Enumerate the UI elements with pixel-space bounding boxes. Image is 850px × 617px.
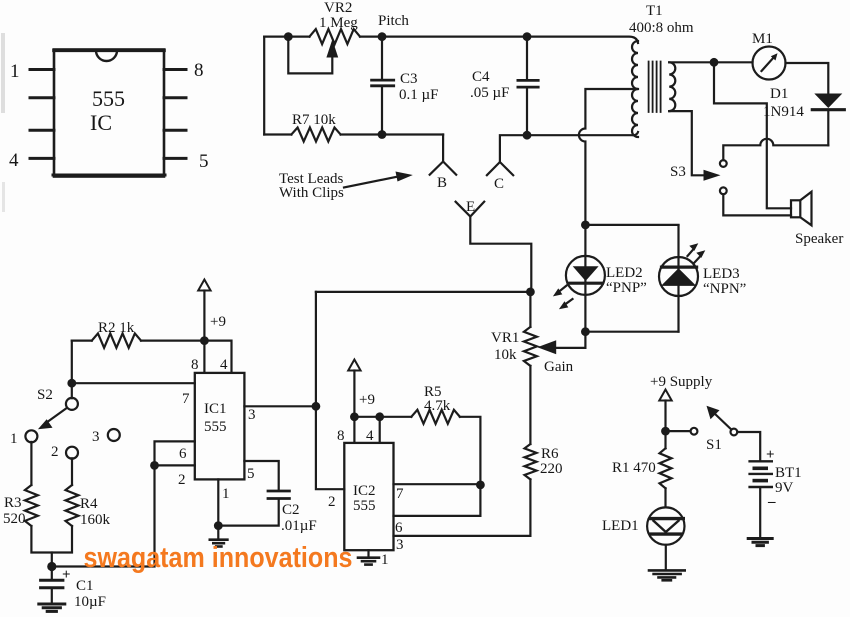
svg-text:T1: T1 — [646, 3, 663, 19]
svg-text:+: + — [766, 447, 775, 463]
diode D1 — [814, 94, 842, 109]
pin 4 lead — [30, 157, 54, 160]
svg-text:7: 7 — [396, 486, 404, 502]
LED2 — [566, 256, 605, 295]
wire pin3 riser to E rail and down to IC2 pin2 — [316, 292, 344, 489]
svg-text:4.7k: 4.7k — [424, 398, 451, 414]
node R5 pin7 junction — [476, 481, 485, 490]
node E junction — [526, 288, 535, 297]
switch S3 bottom contact — [720, 187, 727, 194]
svg-text:Gain: Gain — [544, 359, 574, 375]
S2 contact 2 — [66, 447, 78, 459]
wire secondary bottom to S3 arm — [669, 111, 704, 175]
svg-text:520: 520 — [3, 511, 26, 527]
svg-text:+: + — [62, 567, 71, 583]
node LED2 bottom junction — [581, 327, 590, 336]
wire pin1 IC2 — [367, 550, 369, 557]
pin 8 lead — [164, 68, 186, 71]
wire contact2 to R4 — [71, 458, 73, 485]
switch S3 top contact — [720, 160, 727, 167]
wire pin4 feed IC2 — [379, 417, 381, 443]
node R2/S2 junction — [67, 379, 76, 388]
wire top rail left — [264, 35, 309, 37]
resistor R7 — [264, 133, 291, 135]
scan artifact left edge — [1, 33, 5, 212]
capacitor C3 — [381, 37, 383, 80]
svg-text:IC: IC — [90, 110, 112, 135]
wire LED3 vertical — [677, 225, 679, 331]
node junction VR2 left — [284, 32, 293, 41]
node C1 junction — [47, 562, 56, 571]
ground C1 — [39, 603, 65, 606]
svg-text:R2 1k: R2 1k — [98, 320, 135, 336]
node pin6 junction — [150, 461, 159, 470]
svg-text:400:8 ohm: 400:8 ohm — [629, 20, 694, 36]
S2 contact 1 — [25, 430, 37, 442]
node +9 junction IC1 — [200, 336, 209, 345]
power arrow +9 IC2 — [348, 360, 360, 371]
node pin3 junction — [312, 402, 321, 411]
transformer T1 center tap wire with hop — [579, 89, 638, 225]
svg-text:VR1: VR1 — [491, 330, 519, 346]
wire LED2 vertical — [584, 225, 586, 332]
S1 left contact — [691, 428, 698, 435]
potentiometer VR2 — [310, 29, 361, 44]
wire pin1 — [217, 479, 219, 539]
svg-text:1: 1 — [10, 431, 18, 447]
svg-text:LED1: LED1 — [602, 518, 639, 534]
wire R3 R4 bottoms — [31, 526, 72, 553]
svg-text:C: C — [494, 176, 504, 192]
svg-text:555: 555 — [353, 498, 376, 514]
resistor R3 — [25, 485, 38, 526]
wire LED1 to ground — [665, 545, 667, 569]
capacitor C2 and pin5 wire — [244, 461, 278, 490]
test clip C — [500, 135, 527, 162]
svg-text:LED2: LED2 — [606, 265, 643, 281]
svg-text:3: 3 — [248, 407, 256, 423]
LED3 emission arrows — [688, 249, 695, 257]
svg-text:+9: +9 — [210, 314, 226, 330]
pin lead right 3 — [164, 129, 186, 132]
wire to S1 left contact — [666, 430, 691, 432]
annotation arrow test leads — [344, 177, 398, 188]
wire S1 to battery — [737, 432, 760, 460]
wire to VR1 wiper — [555, 332, 585, 348]
svg-text:555: 555 — [204, 419, 227, 435]
svg-text:1: 1 — [381, 552, 389, 568]
svg-text:2: 2 — [328, 494, 336, 510]
wire pin7 IC2 — [394, 483, 481, 485]
capacitor C4 — [526, 37, 528, 80]
svg-text:R1 470: R1 470 — [612, 460, 656, 476]
wire C4 junction to transformer — [527, 132, 638, 135]
svg-text:3: 3 — [92, 429, 100, 445]
node +9 supply junction — [661, 427, 670, 436]
node C4 top junction — [523, 32, 532, 41]
svg-text:M1: M1 — [752, 31, 773, 47]
svg-text:R7 10k: R7 10k — [292, 112, 336, 128]
pin lead left 3 — [30, 129, 54, 132]
svg-text:1 Meg: 1 Meg — [319, 15, 358, 31]
power arrow +9 IC1 — [198, 280, 210, 291]
svg-text:160k: 160k — [80, 512, 111, 528]
svg-text:R6: R6 — [541, 446, 559, 462]
svg-text:IC2: IC2 — [353, 483, 376, 499]
transformer T1 core — [649, 62, 661, 113]
node Pitch junction — [378, 32, 387, 41]
wire pin2 — [155, 464, 195, 466]
svg-text:4: 4 — [9, 150, 19, 171]
svg-text:C3: C3 — [400, 71, 418, 87]
svg-text:7: 7 — [182, 391, 190, 407]
svg-text:BT1: BT1 — [775, 465, 802, 481]
svg-text:10k: 10k — [494, 347, 517, 363]
svg-text:VR2: VR2 — [324, 0, 352, 16]
wire pin6 IC2 — [394, 515, 481, 517]
resistor R1 — [660, 448, 672, 488]
node LED2 top junction — [581, 221, 590, 230]
svg-text:S1: S1 — [706, 437, 722, 453]
svg-text:D1: D1 — [770, 86, 788, 102]
svg-text:C4: C4 — [472, 69, 490, 85]
svg-text:5: 5 — [247, 466, 255, 482]
wire pin4 feed — [204, 341, 231, 373]
svg-text:6: 6 — [395, 520, 403, 536]
LED1 — [647, 507, 684, 544]
svg-text:C1: C1 — [76, 578, 94, 594]
svg-text:Speaker: Speaker — [795, 231, 843, 247]
speaker — [791, 200, 800, 217]
wire top rail right — [360, 37, 638, 43]
wire C1 to pin2/pin6 — [52, 465, 155, 566]
svg-text:6: 6 — [179, 446, 187, 462]
switch S2 — [71, 383, 73, 398]
wire meter to diode — [786, 63, 829, 94]
resistor R4 — [66, 485, 79, 526]
svg-text:swagatam innovations: swagatam innovations — [84, 542, 353, 574]
svg-text:555: 555 — [92, 86, 125, 111]
svg-text:–: – — [767, 494, 776, 510]
svg-text:B: B — [437, 175, 447, 191]
node C4 bottom junction — [523, 131, 532, 140]
power arrow +9 supply — [659, 390, 671, 401]
wire secondary top to meter — [669, 61, 752, 63]
wire S3 top contact to diode net with hop — [723, 139, 828, 160]
svg-text:5: 5 — [199, 151, 209, 172]
ground LED1 — [649, 569, 685, 572]
wire LED top rail — [585, 224, 678, 226]
resistor R5 — [354, 416, 411, 418]
IC 555 pinout box — [53, 50, 165, 177]
ground BT1 — [748, 537, 772, 540]
node pin1 junction — [214, 521, 223, 530]
svg-text:2: 2 — [51, 444, 59, 460]
wire LED bottom rail — [585, 331, 678, 333]
wire pin3 — [244, 405, 316, 407]
svg-text:.05 µF: .05 µF — [470, 85, 510, 101]
transformer T1 primary winding — [632, 41, 638, 137]
svg-text:4: 4 — [220, 357, 228, 373]
svg-text:E: E — [466, 199, 475, 215]
svg-text:220: 220 — [540, 461, 563, 477]
svg-text:Pitch: Pitch — [378, 13, 409, 29]
svg-text:8: 8 — [191, 357, 199, 373]
meter M1 — [753, 47, 786, 80]
svg-text:4: 4 — [366, 428, 374, 444]
svg-text:LED3: LED3 — [703, 266, 740, 282]
svg-text:.01µF: .01µF — [281, 518, 317, 534]
LED3 — [659, 257, 698, 296]
svg-text:0.1 µF: 0.1 µF — [399, 87, 439, 103]
svg-text:10µF: 10µF — [74, 594, 106, 610]
svg-text:1N914: 1N914 — [763, 104, 804, 120]
svg-text:9V: 9V — [775, 480, 794, 496]
svg-text:S2: S2 — [37, 387, 53, 403]
capacitor C1 — [41, 579, 63, 582]
node +9 junction IC2 b — [375, 412, 384, 421]
VR2 wiper — [288, 41, 332, 73]
wire pin8 feed — [203, 341, 205, 373]
ground IC1 — [210, 538, 228, 541]
op-amp IC2 555 box — [344, 443, 393, 550]
svg-text:+9: +9 — [359, 392, 375, 408]
wire pin7 — [72, 382, 195, 384]
pin lead left 2 — [30, 96, 54, 99]
svg-text:8: 8 — [194, 60, 204, 81]
wire E junction rail — [316, 291, 531, 293]
op-amp IC1 555 box — [195, 373, 245, 480]
svg-text:+9 Supply: +9 Supply — [650, 374, 713, 390]
notch — [96, 51, 117, 62]
wire left vertical — [263, 37, 265, 135]
svg-text:With Clips: With Clips — [279, 185, 344, 201]
test clip B — [442, 135, 444, 162]
svg-text:3: 3 — [396, 537, 404, 553]
wire pin6 — [155, 441, 195, 465]
node secondary top junction — [710, 58, 719, 67]
svg-text:C2: C2 — [282, 502, 300, 518]
pin lead right 2 — [164, 96, 186, 99]
svg-text:1: 1 — [222, 486, 230, 502]
node C3 bottom junction — [378, 130, 387, 139]
resistor R2 — [72, 340, 92, 342]
switch S1 — [731, 429, 738, 436]
pin 1 lead — [30, 68, 54, 71]
wire contact1 to R3 — [30, 442, 32, 485]
svg-text:1: 1 — [10, 61, 20, 82]
test clip E — [456, 202, 485, 217]
VR1 wiper arrow — [537, 340, 556, 354]
wire S3 bottom to speaker — [723, 194, 791, 215]
S2 contact 3 — [108, 429, 120, 441]
pin 5 lead — [164, 157, 186, 160]
svg-text:R4: R4 — [80, 496, 98, 512]
svg-text:IC1: IC1 — [204, 401, 227, 417]
ground IC2 — [358, 556, 379, 559]
wire junction to speaker feed — [714, 62, 791, 208]
svg-text:S3: S3 — [670, 164, 686, 180]
battery BT1 — [750, 460, 772, 462]
svg-text:8: 8 — [337, 428, 345, 444]
svg-text:“NPN”: “NPN” — [703, 281, 746, 297]
node +9 junction IC2 a — [350, 412, 359, 421]
svg-text:“PNP”: “PNP” — [606, 280, 647, 296]
wire R2 left vertical — [71, 341, 73, 384]
LED2 emission arrows — [559, 286, 567, 292]
resistor R6 — [525, 444, 537, 479]
transformer T1 secondary winding — [669, 62, 675, 111]
potentiometer VR1 — [529, 292, 531, 327]
switch S3 arm arrow — [704, 170, 721, 181]
svg-text:R3: R3 — [4, 495, 22, 511]
svg-text:2: 2 — [178, 472, 186, 488]
